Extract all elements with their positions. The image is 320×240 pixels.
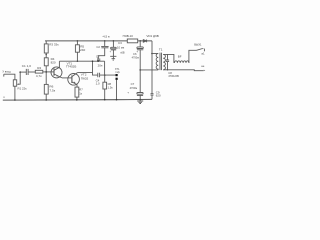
- resistor R2: [35, 70, 43, 73]
- wire secondary bottom: [163, 69, 203, 72]
- capacitor C1: [26, 69, 28, 75]
- svg-text:7,5к: 7,5к: [49, 89, 55, 93]
- svg-text:10 мк: 10 мк: [117, 46, 125, 50]
- svg-text:4700м: 4700м: [132, 56, 140, 59]
- svg-text:620: 620: [156, 93, 161, 97]
- svg-text:4700х6В: 4700х6В: [168, 74, 179, 78]
- switch contact tick: [203, 49, 205, 52]
- svg-text:VD1 Д9В: VD1 Д9В: [146, 34, 158, 38]
- svg-text:х: х: [3, 95, 5, 99]
- capacitor C6 electrolytic: [139, 40, 141, 42]
- transformer T1 core: [160, 53, 162, 71]
- capacitor C8 branch: [166, 54, 169, 69]
- capacitor C5: [97, 59, 100, 60]
- svg-text:-4,5 в: -4,5 в: [102, 35, 110, 39]
- capacitor C9: [151, 94, 154, 95]
- resistor R7: [75, 87, 79, 97]
- svg-text:С7: С7: [131, 82, 135, 86]
- node C5 bus: [97, 60, 99, 62]
- wire to primary top: [152, 53, 158, 55]
- transformer T1 primary: [156, 54, 158, 70]
- svg-text:Т1: Т1: [159, 48, 163, 52]
- resistor R3: [45, 41, 47, 44]
- connector X1 pins: [116, 74, 118, 76]
- svg-text:R3 33к: R3 33к: [49, 42, 59, 46]
- labels: [2, 34, 205, 99]
- node C4 bus: [104, 74, 106, 76]
- capacitor C4: [98, 73, 100, 78]
- wire VT1 emitter to VT2 base: [62, 77, 72, 79]
- bottom rail: [3, 98, 152, 101]
- wire collector bus: [59, 60, 104, 62]
- svg-text:+: +: [136, 49, 138, 53]
- capacitor C7 electrolytic: [137, 93, 143, 95]
- svg-text:R2: R2: [37, 66, 41, 70]
- svg-text:240: 240: [80, 48, 85, 52]
- wire pot bottom: [14, 86, 16, 100]
- wire R6 to rail: [45, 94, 47, 100]
- input terminal tick: [3, 74, 5, 76]
- wire R7 to rail: [76, 97, 78, 100]
- wire VT2 collector to C4: [77, 61, 97, 75]
- ground under rail: [137, 100, 143, 104]
- svg-text:тлф: тлф: [115, 71, 120, 74]
- top rail: [45, 40, 152, 42]
- svg-text:не: не: [201, 64, 205, 68]
- node R3-R4: [45, 54, 47, 56]
- resistor R5: [75, 45, 79, 52]
- svg-text:У вход: У вход: [2, 69, 11, 73]
- svg-text:1,0: 1,0: [96, 82, 100, 86]
- transistor VT1: [51, 67, 62, 78]
- node R5 bottom: [77, 60, 79, 62]
- transformer T1 secondary: [163, 54, 165, 69]
- wire wiper to C1: [20, 71, 26, 73]
- svg-text:С1 1,0: С1 1,0: [22, 64, 31, 68]
- svg-text:С3: С3: [118, 41, 122, 45]
- wire R4 down to base node: [45, 66, 47, 85]
- wire R5 to collector bus: [76, 52, 78, 61]
- wire C4 to connector: [100, 74, 116, 76]
- node primary bottom tap: [139, 69, 141, 71]
- ground under C3: [110, 56, 116, 60]
- svg-text:а1: а1: [201, 52, 205, 56]
- diode VD1: [143, 40, 146, 43]
- svg-text:R1 22к: R1 22к: [18, 86, 28, 90]
- svg-text:ВF: ВF: [178, 54, 182, 58]
- resistor R8: [104, 75, 106, 82]
- pot wiper: [18, 72, 20, 84]
- wire secondary top: [163, 54, 174, 63]
- svg-text:4700м: 4700м: [130, 86, 138, 90]
- node base divider: [45, 71, 47, 73]
- node R5 top: [77, 40, 79, 42]
- wire R3 to R4: [45, 53, 47, 58]
- svg-text:П602: П602: [81, 77, 89, 81]
- svg-text:+: +: [127, 90, 129, 94]
- svg-text:+: +: [110, 49, 112, 53]
- svg-text:х6В: х6В: [120, 51, 125, 54]
- svg-text:ГТ402Б: ГТ402Б: [66, 64, 76, 68]
- capacitor C2: [101, 46, 108, 47]
- node pot-rail: [14, 99, 16, 101]
- inductor BF1: [175, 61, 189, 63]
- wire bus down: [104, 61, 106, 75]
- node R7-rail: [76, 99, 78, 101]
- svg-text:ВЫХ1: ВЫХ1: [194, 43, 202, 47]
- node collector jog: [92, 60, 94, 62]
- wire C2 to C5: [98, 48, 105, 59]
- resistor R9 on rail: [127, 39, 137, 43]
- svg-text:820: 820: [51, 61, 56, 65]
- terminal arrow lower: [204, 70, 206, 71]
- svg-text:1,5к: 1,5к: [108, 85, 114, 89]
- wire input to pot: [4, 74, 15, 80]
- node C8 bottom: [167, 69, 168, 70]
- transistor VT2: [68, 74, 80, 86]
- capacitor C3 electrolytic: [113, 40, 115, 42]
- node wiper junction: [19, 71, 21, 73]
- resistor R1 potentiometer: [13, 80, 16, 86]
- svg-text:4,7к: 4,7к: [36, 74, 42, 78]
- wire C1 to R2: [28, 71, 35, 73]
- svg-text:С2: С2: [96, 45, 100, 49]
- svg-text:С5: С5: [96, 54, 100, 58]
- resistor R6: [44, 84, 48, 94]
- switch lever: [197, 49, 203, 51]
- wire to transformer primary bottom: [140, 69, 158, 71]
- wire diode down to C9: [151, 41, 153, 94]
- resistor R4: [44, 58, 48, 66]
- wire R2 to VT1 base: [43, 71, 54, 73]
- svg-text:ПЭВ-10: ПЭВ-10: [123, 34, 134, 38]
- capacitor C2 feed: [104, 40, 106, 42]
- svg-text:20н: 20н: [98, 64, 103, 68]
- wire coil to switch: [189, 50, 197, 63]
- wire rail to R5: [76, 41, 78, 45]
- svg-text:1к: 1к: [79, 91, 82, 95]
- node R6-rail: [45, 99, 47, 101]
- svg-text:R7: R7: [79, 88, 83, 92]
